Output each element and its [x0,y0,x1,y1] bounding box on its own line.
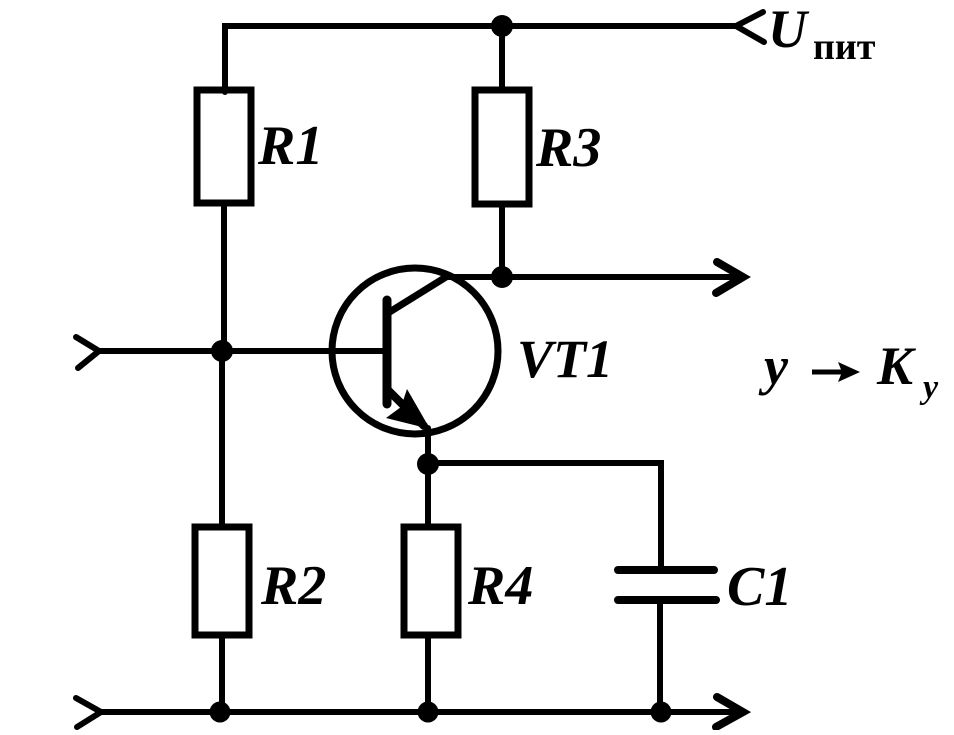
svg-text:R4: R4 [467,555,533,617]
svg-text:R1: R1 [257,115,323,177]
wire collector output wire [445,274,736,280]
wire emitter lead [425,428,431,464]
node top junction (rail / R3) [491,15,513,37]
wire base wire [99,348,384,354]
output arrow (collector) [716,262,743,293]
svg-text:R2: R2 [260,555,326,617]
wire R3 top lead [499,26,505,90]
wire R1 bottom lead [221,203,227,351]
resistor R4 [404,527,458,635]
input terminal arrow bottom left [76,698,101,727]
node collector junction [491,266,513,288]
wire R3 bottom lead [499,204,505,277]
wire R4 bottom lead [425,635,431,712]
resistor R3 [475,90,529,204]
transistor VT1 [332,268,498,434]
wire bottom rail [101,709,736,715]
power terminal arrow Uпит [736,12,764,42]
svg-text:U: U [768,0,810,59]
resistor R2 [195,527,249,635]
resistor R1 [197,90,251,203]
capacitor C1 [618,570,716,600]
wire R4 top lead [425,464,431,527]
svg-text:VT1: VT1 [517,329,613,389]
wire R2 top lead [219,351,225,527]
svg-text:R3: R3 [535,117,601,179]
wire R2 bottom lead [219,635,225,712]
svg-text:K: K [876,336,917,396]
node bottom junction R4 [418,702,439,723]
svg-text:пит: пит [813,26,876,68]
node input junction [211,340,233,362]
label y → Ky [758,336,939,406]
wire emitter node to C1 [428,463,661,566]
wire C1 bottom lead [657,600,663,712]
node bottom junction C1 [651,702,672,723]
output arrow bottom right [716,697,743,727]
node emitter junction [417,453,439,475]
svg-text:C1: C1 [727,556,792,618]
input terminal arrow [76,337,99,368]
wire top supply rail [225,26,735,92]
node bottom junction R2 [210,702,231,723]
